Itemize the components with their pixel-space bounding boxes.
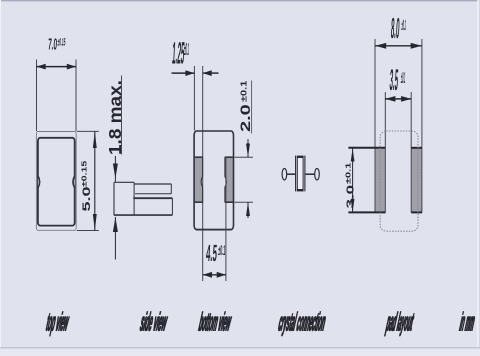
dim 7.0 extension line right	[75, 60, 77, 132]
bottom view right pad inner edge	[225, 157, 226, 202]
bottom view left pad	[195, 157, 203, 202]
dim 2.0 text underline	[251, 81, 253, 134]
side view lid right edge	[170, 184, 172, 194]
dim 1.8 text underline	[121, 76, 123, 155]
right terminal	[315, 168, 320, 180]
top view lid inner outline	[38, 138, 75, 226]
dim label 7.0±0.15	[48, 35, 66, 53]
dim 3.5 arrow right	[401, 96, 411, 102]
svg-text:5.0: 5.0	[81, 186, 93, 211]
pad layout left pad	[375, 148, 385, 213]
svg-text:±0.1: ±0.1	[401, 18, 406, 35]
bottom view right pad	[225, 157, 233, 202]
side view left edge	[113, 182, 115, 215]
dim label 2.0±0.1 (vertical)	[237, 80, 253, 132]
dim 3.5 arrow left	[385, 96, 395, 102]
svg-text:8.0: 8.0	[390, 13, 400, 45]
svg-text:±0.1: ±0.1	[218, 244, 226, 259]
dim 8.0 arrow right	[411, 43, 422, 49]
dim 3.0 dimension line	[352, 149, 354, 212]
dim 1.8 dimension line lower	[114, 217, 116, 260]
top view right notch	[73, 176, 75, 188]
dim 2.0 extension line bottom	[235, 201, 254, 203]
dim label 5.0±0.15 (vertical)	[80, 161, 93, 212]
dim 7.0 dimension line	[37, 66, 77, 68]
dim label 3.0 ±0.1 (vertical)	[344, 162, 356, 209]
svg-text:1.25: 1.25	[171, 36, 185, 71]
dim 1.8 dimension line upper	[114, 156, 116, 182]
svg-text:crystal connection: crystal connection	[277, 309, 328, 338]
svg-text:±0.1: ±0.1	[183, 40, 189, 60]
dim 1.25 arrow pointing left	[203, 70, 212, 76]
left terminal	[282, 168, 287, 180]
quartz plate rectangle	[297, 157, 303, 191]
svg-text:4.5: 4.5	[206, 239, 218, 266]
svg-text:3.0: 3.0	[344, 185, 356, 209]
dim 8.0 dimension line	[375, 45, 422, 47]
bottom view left pad inner edge	[201, 157, 202, 202]
dim 2.0 dimension line upper	[247, 139, 249, 157]
pad layout right pad top/bottom edges	[411, 148, 422, 213]
page frame left white edge	[0, 0, 1, 356]
dim 1.8 arrow up	[113, 217, 118, 232]
side view end cap top edge	[114, 181, 134, 183]
side view lid bottom edge	[135, 193, 171, 195]
page frame bottom rule	[0, 348, 480, 356]
pad layout right pad	[411, 148, 422, 213]
svg-text:7.0: 7.0	[48, 35, 58, 53]
dim 5.0 arrow down	[93, 214, 97, 231]
dim 8.0 arrow left	[375, 43, 386, 49]
svg-text:1.8 max.: 1.8 max.	[106, 80, 125, 155]
dim 8.0 extension line left	[374, 39, 376, 212]
top view left notch	[38, 176, 40, 188]
right wire	[306, 173, 315, 175]
dim label 1.25±0.1	[171, 36, 189, 71]
dim 2.0 arrow up	[246, 202, 250, 216]
svg-text:±0.15: ±0.15	[57, 36, 66, 48]
svg-text:2.0: 2.0	[237, 104, 253, 132]
pad layout left pad top/bottom edges extended	[348, 148, 385, 213]
dim label 3.5±0.1	[389, 62, 406, 97]
dim 2.0 dimension line lower	[247, 202, 249, 218]
pad layout dashed package outline	[380, 131, 418, 231]
dim 1.25 extension line left	[193, 66, 195, 131]
bottom view package outline	[194, 131, 233, 230]
dim label 4.5±0.1	[206, 239, 226, 266]
bottom view left pad edges	[194, 157, 202, 202]
dim 5.0 extension line top	[77, 130, 99, 132]
dim 1.25 arrow pointing right	[185, 70, 194, 76]
dim 3.5 extension line right	[410, 92, 412, 212]
dim 4.5 dimension line	[203, 274, 226, 276]
bottom view package bottom edge emphasis	[196, 229, 232, 231]
side view lid top edge	[134, 183, 171, 185]
svg-text:pad layout: pad layout	[384, 309, 416, 338]
page frame right white edge	[477, 0, 479, 356]
dim 7.0 arrow right	[67, 64, 76, 70]
svg-text:bottom view: bottom view	[197, 309, 233, 338]
left wire	[287, 173, 295, 175]
dim 2.0 arrow down	[246, 144, 250, 158]
svg-text:±0.1: ±0.1	[240, 80, 249, 102]
svg-text:side view: side view	[139, 309, 170, 338]
dim 5.0 arrow up	[93, 131, 97, 148]
page frame top line	[0, 0, 480, 1]
dim 3.0 arrow down	[351, 199, 355, 212]
dim label 8.0±0.1	[390, 13, 406, 45]
dim 4.5 arrow left	[203, 272, 212, 278]
side view base top edge	[133, 197, 172, 199]
side view base bottom edge	[114, 214, 172, 216]
right electrode plate	[304, 156, 306, 192]
dim 3.0 arrow up	[351, 149, 355, 162]
dim 3.5 extension line left	[384, 92, 386, 212]
dim 4.5 arrow right	[217, 272, 226, 278]
side view base right edge	[171, 198, 173, 215]
dim 3.5 dimension line	[385, 98, 411, 100]
dim 8.0 extension line right	[421, 39, 423, 212]
bottom view right pad edges	[225, 157, 234, 202]
dim 7.0 extension line left	[36, 60, 38, 132]
dim 1.25 extension line right (runs through package)	[202, 66, 204, 281]
top view body outer outline	[36, 132, 76, 231]
dim 2.0 extension line top	[235, 156, 254, 158]
svg-text:±0.1: ±0.1	[344, 162, 353, 184]
svg-text:±0.15: ±0.15	[80, 161, 88, 187]
dim 4.5 extension line right	[225, 157, 227, 281]
left electrode plate	[295, 156, 297, 192]
dim 5.0 dimension line	[94, 131, 96, 230]
dim 5.0 extension line bottom	[77, 230, 99, 232]
dim 7.0 arrow left	[37, 64, 46, 70]
side view divider edge	[133, 182, 135, 215]
dim 1.25 dimension line	[172, 72, 195, 74]
dim 1.25 dimension line right part	[203, 72, 219, 74]
dim 1.8 arrow down	[113, 164, 118, 179]
